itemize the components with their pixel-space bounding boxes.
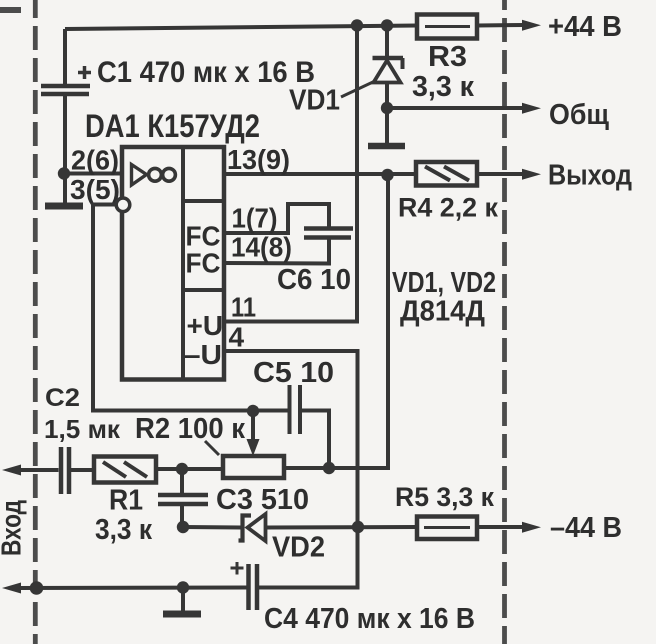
wire R5 to -44 terminal xyxy=(477,525,524,529)
arrow -44 xyxy=(522,522,541,533)
svg-text:С5 10: С5 10 xyxy=(253,357,334,389)
capacitor C6 xyxy=(304,229,353,238)
wire pin 2(6) xyxy=(64,172,122,176)
wire C1 to ground xyxy=(63,96,67,203)
node Общ junction xyxy=(381,102,393,114)
wire R1 to R2 xyxy=(156,467,223,471)
wire pin 3(5) to C5/R2 wiper xyxy=(93,205,288,411)
wire C6 to pin 14(8) xyxy=(224,238,329,264)
op-amp DA1 box xyxy=(122,147,224,380)
svg-text:Выход: Выход xyxy=(548,160,632,192)
svg-text:Вход: Вход xyxy=(0,500,27,556)
svg-text:1,5 мк: 1,5 мк xyxy=(44,414,121,444)
bottom wire xyxy=(18,586,248,591)
node on +rail at VD1 xyxy=(381,19,393,31)
node C5 left / wiper xyxy=(247,405,259,417)
svg-text:4: 4 xyxy=(229,322,245,353)
svg-text:R2 100 к: R2 100 к xyxy=(135,413,245,445)
node ground bottom xyxy=(177,581,189,593)
wire C2 to R1 xyxy=(71,468,95,472)
svg-text:R4 2,2 к: R4 2,2 к xyxy=(398,193,498,223)
ground below VD1 xyxy=(385,108,389,143)
node on dashed border xyxy=(30,581,44,595)
arrow Вход input xyxy=(2,465,21,476)
node: C1/input junction xyxy=(58,167,70,179)
wire Общ xyxy=(387,106,524,110)
wire R4 to Выход xyxy=(477,172,524,176)
node R1/R2/C3 xyxy=(176,463,188,475)
svg-text:13(9): 13(9) xyxy=(227,144,290,175)
svg-text:R5 3,3 к: R5 3,3 к xyxy=(395,482,494,512)
wire +44V top rail xyxy=(65,26,417,30)
svg-text:R3: R3 xyxy=(428,41,467,73)
svg-text:С6 10: С6 10 xyxy=(277,264,351,296)
node feedback xyxy=(323,462,335,474)
svg-text:+U: +U xyxy=(187,310,224,341)
svg-text:1(7): 1(7) xyxy=(232,203,278,234)
svg-text:Д814Д: Д814Д xyxy=(400,296,485,328)
resistor R3 xyxy=(417,15,477,39)
arrow +44V xyxy=(522,20,541,31)
resistor R1 xyxy=(94,457,156,483)
svg-text:Общ: Общ xyxy=(549,99,609,131)
frame corner tick xyxy=(0,7,21,13)
svg-text:3,3 к: 3,3 к xyxy=(95,514,152,546)
wire R2 right xyxy=(284,466,329,470)
svg-text:DA1 К157УД2: DA1 К157УД2 xyxy=(85,108,260,144)
capacitor C5 xyxy=(290,385,301,434)
resistor R4 xyxy=(416,162,477,186)
wire pin 1(7) to C6 xyxy=(224,204,329,233)
svg-text:2(6): 2(6) xyxy=(71,145,119,176)
ground bottom xyxy=(181,588,185,612)
wire R3 to +44V terminal xyxy=(477,23,524,28)
resistor R5 xyxy=(417,517,477,540)
svg-text:R1: R1 xyxy=(109,485,143,517)
svg-text:FC: FC xyxy=(186,248,221,279)
op-amp symbol xyxy=(132,165,147,186)
wire pin 4 to -rail xyxy=(224,351,358,588)
svg-text:+44 В: +44 В xyxy=(548,11,622,43)
svg-text:–44 В: –44 В xyxy=(550,512,622,544)
wire output junction down to feedback xyxy=(329,175,388,468)
resistor R2 xyxy=(223,456,284,478)
svg-text:14(8): 14(8) xyxy=(231,232,292,263)
svg-text:VD1, VD2: VD1, VD2 xyxy=(392,267,496,299)
R2 wiper arrow xyxy=(251,413,255,441)
svg-text:–U: –U xyxy=(184,339,222,370)
left dashed border xyxy=(33,0,38,644)
wire input to C2 xyxy=(18,468,59,472)
capacitor C4 xyxy=(231,562,258,610)
svg-text:С2: С2 xyxy=(45,384,80,412)
ground xyxy=(45,203,83,210)
capacitor C1 xyxy=(41,66,91,94)
svg-text:С4 470 мк х 16 В: С4 470 мк х 16 В xyxy=(264,603,475,635)
node output junction xyxy=(381,169,393,181)
arrow Общ xyxy=(522,103,541,114)
svg-text:С1 470 мк х 16 В: С1 470 мк х 16 В xyxy=(97,56,315,89)
node C3 bottom xyxy=(177,521,189,533)
svg-text:3(5): 3(5) xyxy=(70,174,120,205)
svg-text:11: 11 xyxy=(231,292,256,323)
svg-text:VD1: VD1 xyxy=(289,85,340,117)
svg-text:С3 510: С3 510 xyxy=(216,484,309,516)
capacitor C2 xyxy=(61,447,69,494)
wire pin 13(9) output xyxy=(224,172,416,176)
capacitor C3 xyxy=(158,471,208,527)
right dashed border xyxy=(502,0,507,644)
zener VD2 xyxy=(183,514,417,541)
node circle pin 3(5) xyxy=(116,198,130,212)
node on +rail xyxy=(351,19,363,31)
wire C5 right to feedback node xyxy=(302,411,329,469)
zener VD1 xyxy=(373,26,404,109)
svg-text:3,3 к: 3,3 к xyxy=(412,71,474,103)
node -44 rail xyxy=(352,521,364,533)
svg-text:VD2: VD2 xyxy=(272,532,325,564)
arrow Выход xyxy=(522,169,541,180)
wire pin 11 to +rail xyxy=(224,26,357,322)
arrow bottom input xyxy=(2,583,21,594)
wire C1 branch from top rail xyxy=(63,29,67,86)
